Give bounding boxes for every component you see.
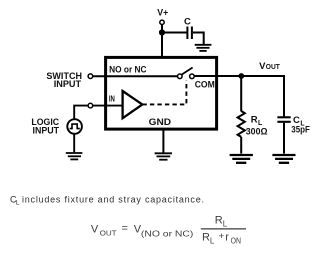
pulse waveform glyph (70, 124, 80, 129)
svg-text:L: L (223, 219, 228, 228)
svg-text:INPUT: INPUT (54, 79, 82, 90)
dashed control line buffer to switch (142, 81, 186, 105)
wire VOUT node to capacitor CL (283, 75, 285, 117)
svg-text:(NO or NC): (NO or NC) (141, 230, 194, 239)
formula VOUT = V(NO or NC) * RL/(RL+rON) (91, 214, 246, 245)
ground (RL) (230, 155, 253, 163)
node V+ terminal circle (160, 20, 164, 24)
svg-text:+: + (219, 231, 225, 242)
switch input terminal (88, 74, 93, 79)
resistor RL (238, 111, 245, 137)
ground (logic input) (66, 153, 83, 159)
svg-text:R: R (202, 231, 210, 243)
buffer amplifier A1 (123, 91, 143, 118)
wire COM to VOUT node (194, 75, 285, 77)
wire pulse generator to ground (73, 134, 75, 152)
switch S1 NO contact (178, 74, 183, 79)
svg-text:ON: ON (231, 237, 242, 246)
wire VOUT node to resistor RL (240, 76, 242, 111)
wire capacitor CL to ground (283, 123, 285, 154)
caption: CL includes fixture and stray capacitance (10, 195, 204, 207)
switch S1 blade (182, 68, 193, 75)
pulse generator source (67, 119, 82, 134)
junction dot VOUT / RL (238, 73, 244, 79)
wire capacitor C to ground (193, 33, 204, 45)
svg-text:OUT: OUT (266, 64, 281, 71)
svg-text:R: R (215, 214, 223, 226)
logic input terminal (88, 103, 93, 108)
svg-text:r: r (225, 231, 229, 243)
svg-text:=: = (122, 222, 128, 234)
ground (IC GND) (155, 153, 172, 159)
wire GND pin to ground (162, 129, 164, 153)
svg-text:R: R (251, 115, 258, 126)
svg-text:L: L (16, 200, 20, 207)
svg-text:INPUT: INPUT (33, 125, 60, 136)
svg-text:35pF: 35pF (291, 125, 310, 136)
svg-text:300Ω: 300Ω (246, 126, 268, 137)
junction dot V+ / C (159, 29, 165, 35)
wire logic source corner to IN terminal (74, 106, 88, 120)
IC box U1 (106, 57, 217, 129)
svg-text:L: L (210, 236, 215, 245)
wire V+ terminal to box top (161, 25, 163, 57)
ground (V+ bypass) (195, 45, 212, 51)
capacitor CL plates (277, 116, 290, 118)
svg-text:GND: GND (149, 117, 172, 128)
svg-text:V+: V+ (157, 7, 168, 18)
wire IN terminal to buffer input (93, 105, 122, 107)
capacitor C plates (186, 27, 188, 40)
fraction bar (201, 228, 246, 230)
svg-text:includes fixture and stray cap: includes fixture and stray capacitance. (22, 195, 204, 205)
svg-text:C: C (184, 16, 191, 27)
svg-text:NO or NC: NO or NC (109, 64, 147, 75)
wire resistor RL to ground (240, 137, 242, 154)
ground (CL) (272, 155, 295, 163)
wire switch input terminal to NO contact (93, 75, 177, 77)
svg-text:OUT: OUT (100, 228, 118, 237)
svg-text:COM: COM (195, 79, 215, 90)
svg-text:IN: IN (109, 95, 115, 104)
switch S1 COM contact (190, 74, 195, 79)
wire junction to capacitor C (162, 32, 187, 34)
svg-text:V: V (91, 223, 99, 235)
